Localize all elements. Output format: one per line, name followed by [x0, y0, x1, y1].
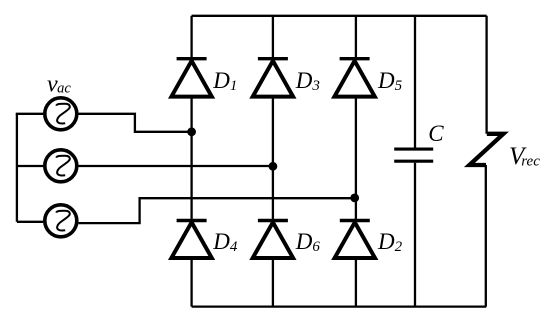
- diode D4: [171, 221, 211, 259]
- wire phase C: [78, 198, 356, 223]
- wire phase A: [78, 114, 191, 132]
- svg-text:D5: D5: [377, 68, 403, 94]
- wire D6 to bottom bus: [272, 258, 274, 307]
- wire stub source2 left: [17, 165, 43, 167]
- load Vrec zigzag: [469, 134, 503, 165]
- wire node C to D2: [355, 198, 357, 219]
- wire node A to D4: [190, 132, 192, 219]
- wire D2 to bottom bus: [355, 258, 357, 307]
- svg-text:C: C: [428, 121, 444, 146]
- wire Vrec bottom: [485, 165, 487, 307]
- wire phase B: [78, 165, 273, 167]
- ac source 2: [45, 150, 77, 182]
- diode D1: [171, 59, 211, 97]
- wire D3 to node B: [272, 97, 274, 166]
- diode D3: [253, 59, 293, 97]
- wire D1 column top: [190, 16, 192, 57]
- node B junction dot: [269, 162, 278, 171]
- ac source 1: [45, 98, 77, 130]
- wire capacitor bottom: [414, 163, 416, 307]
- svg-text:D1: D1: [212, 68, 237, 94]
- wire Vrec top: [485, 16, 487, 134]
- ac source 3: [45, 205, 77, 237]
- svg-text:D3: D3: [295, 68, 320, 94]
- diode D5: [334, 59, 374, 97]
- wire stub source3 left: [17, 221, 43, 223]
- wire capacitor top: [414, 16, 416, 148]
- svg-text:D2: D2: [377, 229, 403, 255]
- wire D5 to node C: [355, 97, 357, 199]
- svg-text:vac: vac: [47, 72, 71, 98]
- wire left rail: [16, 114, 18, 222]
- wire bottom bus: [192, 305, 487, 307]
- svg-text:D6: D6: [295, 229, 321, 255]
- wire D1 to node A: [190, 97, 192, 132]
- diode D6: [253, 221, 293, 259]
- capacitor C plates: [394, 149, 433, 161]
- wire D4 to bottom bus: [190, 258, 192, 307]
- node C junction dot: [350, 194, 359, 203]
- wire node B to D6: [272, 166, 274, 219]
- diode D2: [335, 221, 375, 259]
- wire stub source1 left: [16, 113, 43, 115]
- node A junction dot: [187, 127, 196, 136]
- svg-text:Vrec: Vrec: [509, 143, 540, 170]
- wire top bus: [192, 15, 487, 17]
- svg-text:D4: D4: [212, 229, 238, 255]
- wire D5 column top: [355, 16, 357, 57]
- wire D3 column top: [272, 16, 274, 57]
